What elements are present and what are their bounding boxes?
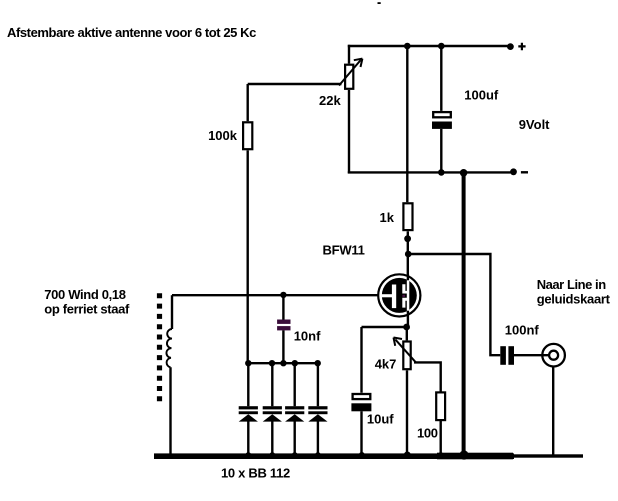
capacitor 10nf plate 1 <box>277 320 290 324</box>
wire thick ground return <box>462 173 466 455</box>
wire 1k to drain <box>407 231 409 274</box>
svg-text:Afstembare aktive antenne voor: Afstembare aktive antenne voor 6 tot 25 … <box>7 25 256 40</box>
wire varicap bus <box>248 362 318 364</box>
transistor Q1 white gate lead <box>381 294 392 297</box>
svg-text:BFW11: BFW11 <box>323 243 365 258</box>
wire connector to ground <box>552 367 554 456</box>
wire 22k top lead <box>348 45 350 64</box>
transistor Q1 BFW11 outer ring <box>378 274 420 316</box>
node junction 100uf on -rail <box>438 169 445 176</box>
transistor Q1 white channel through line <box>407 280 410 310</box>
node 4k7 ground dot <box>404 452 411 459</box>
svg-text:22k: 22k <box>319 93 341 108</box>
wire 22k wiper to 100k <box>248 83 342 85</box>
resistor 1k body <box>403 203 412 230</box>
svg-text:geluidskaart: geluidskaart <box>537 291 611 306</box>
capacitor 10uf leads <box>360 327 362 455</box>
ground rail <box>154 453 514 459</box>
node top junction A <box>404 43 411 50</box>
node drain junction 1 <box>404 235 411 242</box>
node + terminal <box>507 43 514 50</box>
capacitor 100uf leads <box>440 46 442 172</box>
node - terminal <box>510 168 517 175</box>
wire 100nf to connector <box>514 354 549 356</box>
resistor 100 body <box>436 392 445 420</box>
svg-text:10uf: 10uf <box>367 412 394 427</box>
label + sign <box>518 43 525 51</box>
capacitor 100uf bottom plate <box>432 122 452 129</box>
capacitor 10uf bottom plate <box>351 403 371 411</box>
transistor Q1 white gate bar <box>392 285 396 309</box>
resistor 100 bottom lead <box>440 421 442 455</box>
connector J1 outer circle <box>542 344 565 367</box>
svg-text:9Volt: 9Volt <box>519 117 550 132</box>
capacitor 100nf plate 1 <box>500 346 506 365</box>
transistor Q1 white source hook <box>402 298 407 308</box>
capacitor 10nf plate 2 <box>277 326 290 330</box>
capacitor 100uf top plate <box>433 112 451 117</box>
varicap diode D1 <box>239 363 258 458</box>
capacitor 10nf bottom lead <box>282 330 284 363</box>
node bus dot 5 <box>315 360 321 366</box>
ferrite rod dashed <box>157 293 162 403</box>
wire +rail to 1k (crosses -rail) <box>406 46 408 202</box>
svg-text:100uf: 100uf <box>464 88 499 103</box>
svg-text:100: 100 <box>417 426 438 441</box>
node 100 ground dot <box>438 452 444 458</box>
potentiometer 4k7 bottom lead <box>406 370 408 455</box>
node 10uf ground dot <box>359 452 365 458</box>
varicap diode D3 <box>285 363 304 458</box>
node source junction <box>403 324 410 331</box>
node drain junction 2 <box>405 251 412 258</box>
node bus dot 3 (10nf) <box>280 360 286 366</box>
varicap diode D4 <box>308 363 327 458</box>
svg-text:Naar Line in: Naar Line in <box>537 277 607 292</box>
potentiometer 4k7 wiper arrow <box>395 339 416 363</box>
svg-text:op ferriet staaf: op ferriet staaf <box>44 302 130 317</box>
svg-text:700 Wind 0,18: 700 Wind 0,18 <box>44 287 125 302</box>
wire 100k bottom to varicap bus <box>246 150 248 363</box>
capacitor 10uf top plate <box>353 394 371 399</box>
wire source to 10uf branch <box>362 326 407 328</box>
node bus dot 1 <box>245 360 251 366</box>
connector J1 inner circle <box>549 351 558 360</box>
potentiometer 22k body <box>345 65 353 89</box>
inductor L1 bottom lead <box>169 367 171 454</box>
potentiometer 4k7 body <box>403 342 410 370</box>
varicap diode D2 <box>263 363 282 458</box>
node junction thick line on -rail <box>460 169 468 177</box>
potentiometer 22k wiper arrow <box>339 60 361 86</box>
wire -9V rail <box>348 171 511 173</box>
svg-text:100k: 100k <box>208 128 238 143</box>
svg-text:10 x BB 112: 10 x BB 112 <box>221 466 290 481</box>
wire 4k7 wiper to 100 <box>414 362 441 391</box>
wire top +9V rail <box>348 45 510 47</box>
svg-text:4k7: 4k7 <box>375 357 397 372</box>
inductor L1 top lead <box>171 295 173 329</box>
stray mark top center <box>378 2 381 4</box>
node bus dot 2 <box>269 360 275 366</box>
svg-text:100nf: 100nf <box>505 323 540 338</box>
node big junction on ground rail <box>459 450 468 459</box>
wire drain to output <box>408 254 500 355</box>
wire 22k bottom lead <box>348 90 350 173</box>
transistor Q1 purple center pixel <box>402 295 405 297</box>
node bus dot 4 <box>292 360 298 366</box>
label - sign <box>521 171 528 173</box>
capacitor 100nf plate 2 <box>508 346 514 365</box>
node top junction B <box>438 43 445 50</box>
inductor L1 coil bumps <box>166 329 172 367</box>
potentiometer 4k7 top lead <box>406 327 408 340</box>
transistor Q1 drain/source through leads <box>407 275 409 327</box>
svg-text:10nf: 10nf <box>294 329 321 344</box>
node gate junction <box>280 292 286 298</box>
transistor Q1 white drain hook <box>402 284 407 293</box>
svg-text:1k: 1k <box>380 210 395 225</box>
capacitor 10nf top lead <box>282 295 284 320</box>
resistor 100k body <box>246 84 248 121</box>
wire gate line <box>172 294 378 296</box>
transistor Q1 black disc <box>382 278 417 313</box>
